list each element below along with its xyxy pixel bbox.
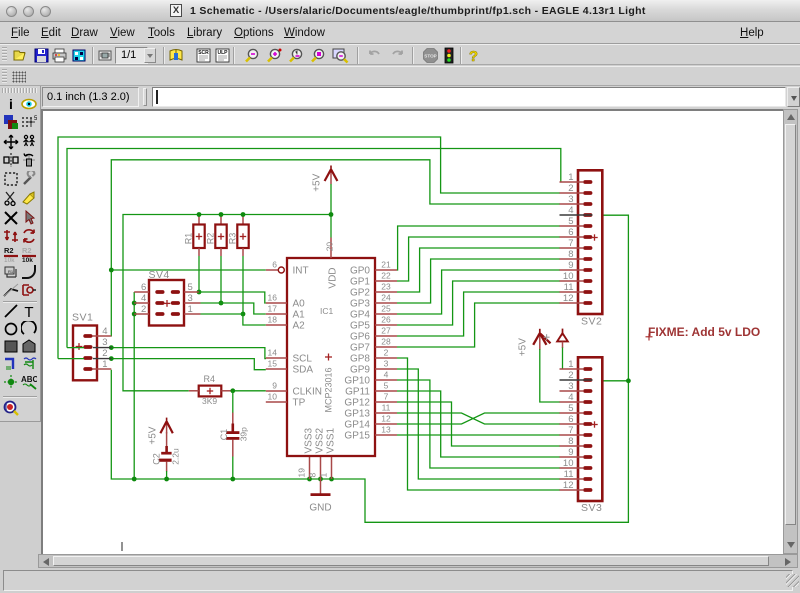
svg-text:GP6: GP6 xyxy=(350,332,370,343)
ground GND symbol xyxy=(309,479,331,514)
IC1 pin 4 GP10 xyxy=(344,369,397,386)
wire SV4 pins 6/4/2 ground riser xyxy=(133,292,135,479)
svg-text:GP12: GP12 xyxy=(344,398,370,409)
wire +5V rail to resistors and down to R4 xyxy=(123,215,331,391)
svg-text:26: 26 xyxy=(381,314,391,324)
svg-text:23: 23 xyxy=(381,281,391,291)
svg-text:GP11: GP11 xyxy=(345,387,370,398)
svg-text:GP10: GP10 xyxy=(344,376,370,387)
svg-text:3: 3 xyxy=(188,293,193,304)
svg-text:A2: A2 xyxy=(293,321,306,332)
junction on GND rail xyxy=(164,477,169,482)
wire net GP11 to SV3 xyxy=(397,391,560,457)
wire net SV1 pin4 to SV2 pin3 xyxy=(111,160,560,337)
IC1 pin 16 A0 xyxy=(266,292,305,309)
wire C1 bottom to GND rail xyxy=(232,457,234,480)
IC1 pin 9 CLKIN xyxy=(266,380,322,397)
svg-text:+5V: +5V xyxy=(148,426,159,444)
wire net GP2 to SV2 pin 7 xyxy=(397,248,560,292)
IC1 pin 17 A1 xyxy=(266,303,305,320)
wire net SCL top run (SV2 pin1 around top to SV1 pin3) xyxy=(67,149,561,348)
svg-text:?: ? xyxy=(469,48,478,64)
svg-text:MCP23016: MCP23016 xyxy=(324,367,334,412)
svg-text:10: 10 xyxy=(268,391,278,401)
svg-text:20: 20 xyxy=(324,242,334,252)
svg-text:R1: R1 xyxy=(183,233,193,245)
IC1 pin 14 SCL xyxy=(266,347,313,364)
wire C1 top xyxy=(232,391,234,413)
connector SV2 xyxy=(563,170,602,327)
wire net A1: SV4 pin3 to IC pin 17 xyxy=(201,303,266,314)
resistor R1 xyxy=(183,216,204,256)
SV2 pin stubs xyxy=(560,182,584,303)
wire net GP4 to SV2 pin 9 xyxy=(397,270,560,314)
IC1 origin cross xyxy=(325,356,332,358)
wire R2 bottom to SV4 row xyxy=(220,256,222,303)
resistor R3 xyxy=(227,216,248,256)
junction on GND rail xyxy=(307,477,312,482)
connector SV4 xyxy=(134,269,200,325)
svg-text:24: 24 xyxy=(381,292,391,302)
capacitor C2 xyxy=(151,432,180,472)
svg-text:GP7: GP7 xyxy=(350,343,370,354)
svg-text:R3: R3 xyxy=(227,233,237,245)
svg-text:3: 3 xyxy=(102,337,107,348)
svg-text:GP2: GP2 xyxy=(350,288,370,299)
svg-text:3K9: 3K9 xyxy=(202,396,217,406)
junction R3 top on +5V rail xyxy=(241,212,246,217)
wire net A2: SV4 pin1 to IC pin 18 xyxy=(201,314,266,325)
wire +5V to SV3 pin1 xyxy=(562,348,564,370)
connector SV3 xyxy=(563,357,602,514)
junction at SV1 pin4 riser / INT branch xyxy=(109,268,114,273)
svg-text:39p: 39p xyxy=(238,427,248,441)
wire GND rail and SV1 pin1 drop xyxy=(111,215,628,522)
frame tick mark bottom xyxy=(121,542,123,551)
svg-text:2.2u: 2.2u xyxy=(171,448,181,465)
junction R1 top on +5V rail xyxy=(197,212,202,217)
svg-text:SCR: SCR xyxy=(198,50,209,56)
svg-text:R2: R2 xyxy=(4,246,14,255)
svg-text:11: 11 xyxy=(382,402,391,412)
svg-text:28: 28 xyxy=(381,336,391,346)
svg-text:12: 12 xyxy=(381,413,391,423)
junction on GND rail xyxy=(318,477,323,482)
wire +5V from symbol to VDD pin 20 xyxy=(330,184,332,238)
wire net GP1 to SV2 pin 6 xyxy=(397,237,560,281)
svg-text:A1: A1 xyxy=(293,310,306,321)
svg-text:GP3: GP3 xyxy=(350,299,370,310)
svg-text:GND: GND xyxy=(309,503,331,514)
junction R2 bottom xyxy=(219,301,224,306)
svg-text:+5V: +5V xyxy=(312,173,323,191)
IC1 pin 21 GP0 xyxy=(350,259,397,276)
svg-text:18: 18 xyxy=(268,314,278,324)
IC1 pin 11 GP13 xyxy=(344,402,397,419)
wire SV3 pin2 to GND riser xyxy=(603,380,629,382)
svg-text:22: 22 xyxy=(381,270,391,280)
svg-text:GP5: GP5 xyxy=(350,321,370,332)
junction R2 top on +5V rail xyxy=(219,212,224,217)
svg-text:C2: C2 xyxy=(151,453,161,465)
svg-text:2: 2 xyxy=(141,304,146,315)
connector SV1 xyxy=(72,311,111,380)
svg-text:6: 6 xyxy=(272,259,277,269)
junction on GND rail xyxy=(329,477,334,482)
svg-text:VSS3: VSS3 xyxy=(304,427,315,453)
svg-text:GP1: GP1 xyxy=(350,277,370,288)
svg-text:17: 17 xyxy=(268,303,278,313)
wire R4 to IC CLKIN pin 9 xyxy=(232,390,266,392)
svg-text:4: 4 xyxy=(384,369,389,379)
svg-text:A0: A0 xyxy=(293,299,306,310)
IC1 pin 10 TP xyxy=(266,391,306,408)
junction R1 bottom xyxy=(197,290,202,295)
supply +5V symbol at C2 xyxy=(148,418,173,445)
svg-text:CLKIN: CLKIN xyxy=(293,387,322,398)
svg-text:14: 14 xyxy=(268,347,278,357)
svg-text:10k: 10k xyxy=(22,257,33,262)
svg-text:25: 25 xyxy=(381,303,391,313)
wire +5V to SV3 pin4 xyxy=(540,349,560,402)
IC1 pin 7 GP12 xyxy=(344,391,397,408)
svg-text:SDA: SDA xyxy=(293,365,314,376)
svg-text:R2: R2 xyxy=(205,233,215,245)
svg-text:3: 3 xyxy=(384,358,389,368)
resistor R4 xyxy=(189,374,232,406)
svg-text:21: 21 xyxy=(381,259,391,269)
supply +5V triangle symbol at SV3 pin1 xyxy=(557,329,568,348)
svg-text:GP8: GP8 xyxy=(350,354,370,365)
wire SCL jog into IC pin 14 xyxy=(111,348,266,359)
wire net GP8 to SV3 xyxy=(397,358,560,490)
junction GND riser at SV3 pin2 xyxy=(626,378,631,383)
IC1 pin 15 SDA xyxy=(266,358,314,375)
svg-text:R1: R1 xyxy=(8,269,14,274)
svg-text:10k: 10k xyxy=(4,257,15,262)
svg-text:8: 8 xyxy=(308,473,318,478)
svg-text:2: 2 xyxy=(102,348,107,359)
svg-text:SV1: SV1 xyxy=(72,311,93,323)
wire net A0: SV4 pin5 to IC pin 16 xyxy=(199,292,266,303)
IC1 pin 23 GP2 xyxy=(350,281,397,298)
capacitor C1 xyxy=(219,413,249,457)
wire net GP0 to SV2 pin 5 xyxy=(397,226,560,270)
IC1 pin 22 GP1 xyxy=(350,270,397,287)
junction R4 / C1 xyxy=(230,388,235,393)
svg-text:ULP: ULP xyxy=(218,50,229,56)
wire INT net from junction to IC pin 6 xyxy=(111,269,265,271)
IC1 pin 3 GP9 xyxy=(350,358,397,375)
IC1 pin 25 GP4 xyxy=(350,303,397,320)
svg-text:1: 1 xyxy=(319,473,329,478)
junction on GND rail xyxy=(132,477,137,482)
svg-text:R4: R4 xyxy=(204,374,216,384)
svg-text:FIXME: Add 5v LDO: FIXME: Add 5v LDO xyxy=(648,325,760,339)
svg-text:TP: TP xyxy=(293,398,306,409)
wire net GP6 to SV2 pin 11 xyxy=(397,292,560,336)
svg-text:5: 5 xyxy=(34,116,37,122)
svg-text:GP13: GP13 xyxy=(344,409,370,420)
op-amp/IC U1 IC1 MCP23016 body xyxy=(287,258,375,456)
wire net GP14 to SV3 pin5 (crossover) xyxy=(397,413,560,424)
svg-text:7: 7 xyxy=(384,391,389,401)
wire net GP12 to SV3 xyxy=(397,402,560,446)
IC1 pin 24 GP3 xyxy=(350,292,397,309)
wire net GP3 to SV2 pin 8 xyxy=(397,259,560,303)
IC1 pin 26 GP5 xyxy=(350,314,397,331)
SV3 pin stubs xyxy=(560,369,584,490)
junction R3 bottom xyxy=(241,312,246,317)
svg-text:6: 6 xyxy=(141,282,146,293)
wire SDA jog into IC pin 15 xyxy=(111,359,265,370)
junction SV1 pin2 / SDA xyxy=(109,356,114,361)
supply +5V symbol above IC1 xyxy=(330,172,332,184)
svg-text:+5V: +5V xyxy=(517,338,528,356)
wire stubs into SV1 body (pins 2,3 from left) xyxy=(67,347,84,349)
svg-text:27: 27 xyxy=(381,325,391,335)
svg-text:SV2: SV2 xyxy=(581,316,602,328)
IC1 pin 5 GP11 xyxy=(345,380,397,397)
svg-text:5: 5 xyxy=(384,380,389,390)
svg-text:13: 13 xyxy=(381,424,391,434)
svg-text:19: 19 xyxy=(297,468,307,478)
wire dark segment SV2 pin4 xyxy=(560,214,593,216)
svg-text:INT: INT xyxy=(293,266,309,277)
IC1 pin 6 INT xyxy=(266,259,309,276)
svg-text:VSS2: VSS2 xyxy=(315,427,326,453)
wire net SDA top run (SV2 pin2 around top to SV1 pin2) xyxy=(58,137,560,359)
svg-text:GP14: GP14 xyxy=(344,420,370,431)
wire net GP10 to SV3 xyxy=(397,380,560,468)
wire dark segment SV3 pin2 xyxy=(560,379,593,381)
svg-text:5: 5 xyxy=(188,282,193,293)
wire net GP15 to SV3 pin7 xyxy=(397,434,560,436)
junction SV4 pin2 gnd xyxy=(132,312,137,317)
wire R1 bottom to SV4 row xyxy=(198,256,200,292)
IC1 VSS pin 8 xyxy=(320,456,322,479)
svg-text:GP4: GP4 xyxy=(350,310,370,321)
IC1 pin 27 GP6 xyxy=(350,325,397,342)
svg-text:GP15: GP15 xyxy=(344,431,370,442)
svg-text:R2: R2 xyxy=(22,246,32,255)
svg-text:VSS1: VSS1 xyxy=(326,427,337,453)
IC1 VSS pin 19 xyxy=(309,456,311,479)
svg-text:ABC: ABC xyxy=(21,375,37,384)
wire C2 bottom to GND rail xyxy=(166,471,168,479)
supply +5V symbol (rotated pair) at SV3 pin4 xyxy=(517,329,550,356)
svg-text:T: T xyxy=(24,304,33,319)
wire net GP9 to SV3 xyxy=(397,369,560,479)
wire dark segment SV1 pin3 xyxy=(93,347,111,349)
IC1 pin 20 VDD xyxy=(330,238,332,259)
IC1 pin 18 A2 xyxy=(266,314,305,331)
IC1 pin 13 GP15 xyxy=(344,424,397,441)
wire dark segment SV1 pin2 xyxy=(93,358,111,360)
wire net GP13 to SV3 pin6 (crossover) xyxy=(397,413,560,424)
text note FIXME xyxy=(646,325,761,341)
IC1 pin 12 GP14 xyxy=(344,413,397,430)
junction +5V at VDD riser xyxy=(329,212,334,217)
svg-text:2: 2 xyxy=(384,347,389,357)
svg-text:15: 15 xyxy=(268,358,278,368)
svg-text:9: 9 xyxy=(272,380,277,390)
svg-text:4: 4 xyxy=(141,293,146,304)
svg-text:GP0: GP0 xyxy=(350,266,370,277)
wire R3 bottom to SV4 row xyxy=(242,256,244,314)
svg-text:1: 1 xyxy=(188,304,193,315)
svg-text:VDD: VDD xyxy=(328,267,339,288)
wire net GP7 to SV2 pin 12 xyxy=(397,303,560,347)
IC1 pin 28 GP7 xyxy=(350,336,397,353)
resistor R2 xyxy=(205,216,226,256)
svg-text:SV3: SV3 xyxy=(581,502,602,514)
wire net GP5 to SV2 pin 10 xyxy=(397,281,560,325)
IC1 VSS pin 1 xyxy=(331,456,333,479)
junction SV1 pin3 / SCL xyxy=(109,345,114,350)
svg-text:i: i xyxy=(9,96,13,112)
svg-text:STOP: STOP xyxy=(424,54,436,59)
IC1 pin 2 GP8 xyxy=(350,347,397,364)
junction on GND rail xyxy=(230,477,235,482)
svg-text:16: 16 xyxy=(268,292,278,302)
svg-text:SCL: SCL xyxy=(293,354,313,365)
svg-text:C1: C1 xyxy=(219,429,229,441)
junction SV4 pin4 gnd xyxy=(132,301,137,306)
svg-text:GP9: GP9 xyxy=(350,365,370,376)
svg-text:IC1: IC1 xyxy=(320,306,334,316)
